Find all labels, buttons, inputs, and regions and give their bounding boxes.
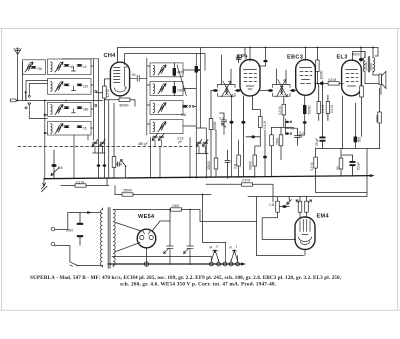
svg-text:m: m [230,246,233,250]
variable capacitor B3 [55,105,63,115]
svg-text:4470: 4470 [177,71,184,75]
junction dot grid EL3 [317,83,319,85]
coil B1 [51,62,53,72]
svg-text:450 μF: 450 μF [138,142,148,146]
resistor 50000 under CH4 [119,98,130,108]
tube EL3 [342,60,362,96]
blob rail b [103,164,107,167]
resistor 0.2M horizontal [75,181,86,188]
svg-text:pF: pF [179,140,183,144]
ground earth symbol [144,262,149,267]
resistor 50000 EBC3 diode [303,96,312,121]
capacitor blob B2a [64,84,69,86]
wire EL3 anode [343,52,365,84]
wire osc gang link [177,65,187,96]
capacitor EF9 grid top [236,48,245,63]
speaker [379,71,386,88]
junction dots top bus [249,47,374,49]
volume pot arrow [121,160,127,179]
capacitor blob B3a [64,107,69,109]
osc box row2 [150,82,183,96]
resistor 25000 horizontal [122,188,133,196]
svg-text:50: 50 [132,73,136,77]
chassis bus main [44,176,372,179]
capacitor 50000 screen [249,155,257,178]
svg-text:EL3: EL3 [337,54,348,60]
wire mid verticals [99,100,109,179]
ground symbol left [42,178,48,192]
wire band row2 [26,81,48,101]
svg-text:150: 150 [181,113,187,117]
svg-text:50000: 50000 [308,105,312,114]
osc coil row4 [153,122,155,132]
svg-text:0.1 M: 0.1 M [263,121,267,129]
wire EBC3 top [305,48,307,61]
wire CH4 anode to bus1 [117,48,119,63]
svg-text:CH4: CH4 [104,53,117,59]
resistor 0.5M sec [326,95,334,121]
tone contact 4 [229,262,233,266]
resistor 0.1M EL3 grid leak [317,83,325,120]
power transformer secondary [113,210,115,266]
junction dots power [169,209,191,265]
tuner box B2 [48,79,92,95]
svg-text:50000: 50000 [213,121,217,130]
osc coil row1 [153,65,155,75]
wire 10000 leads [316,48,318,84]
svg-text:50: 50 [336,166,340,170]
IF T1 blobs [213,89,242,92]
chassis bus power arrow [241,262,246,265]
resistor AVC left [11,99,17,102]
wire EM4 feed [248,149,367,256]
resistor 123 vertical [103,86,110,98]
wire mains bottom [55,246,101,267]
svg-text:10: 10 [83,65,87,69]
resistor EM4 b [305,197,309,218]
tube EF9 [240,60,260,96]
resistor 20000 osc anode [195,66,200,73]
resistor 500 [354,137,362,143]
variable capacitor 115 [51,150,59,178]
svg-text:0.5 M: 0.5 M [278,106,282,114]
svg-text:0.5 M: 0.5 M [330,105,334,113]
resistor 0.5M det [242,179,253,187]
resistor 10000 EL3 grid [316,60,324,80]
blob EF9 screen [259,48,268,67]
trimmer T1 [92,140,98,147]
svg-text:0.1 M: 0.1 M [321,105,325,113]
blob rail a [97,164,101,167]
osc box row4 [150,120,183,134]
variable capacitor B2 [55,82,63,92]
wire tuner left rail [21,62,23,101]
svg-text:f: f [236,245,237,249]
osc contact f [189,106,191,108]
capacitor at pot [116,162,121,166]
arrows EM4 resistors [296,200,312,203]
svg-text:5000: 5000 [376,115,380,122]
wire IF T2 leads [260,69,286,91]
wire top bus 1 [118,47,379,49]
resistor 150 EL3 cathode [360,83,364,103]
capacitor 0.1 uF EBC3 [295,129,305,145]
electrolytic cap 1 [164,222,174,265]
osc trimmers bottom [152,134,164,147]
svg-text:50000: 50000 [249,161,253,170]
tube EBC3 [296,60,316,96]
resistor 0.5M AVC [310,157,317,170]
svg-text:0.2 M: 0.2 M [76,181,84,185]
svg-text:50000: 50000 [120,104,129,108]
wire EF9 anode [249,48,251,62]
tuner box B4 [48,122,92,136]
switch contacts diode [286,119,298,135]
resistor 4470 [173,63,185,77]
tube WE54 [137,229,156,248]
svg-text:EM4: EM4 [317,214,330,220]
capacitor blob B2b [77,84,82,86]
blob 115 [51,164,56,167]
svg-text:1 M: 1 M [269,203,275,207]
switch contact b [28,95,30,97]
svg-text:M: M [210,246,213,250]
switch contact a [25,107,27,109]
wire 123 leads [97,79,111,101]
svg-text:1,2 M: 1,2 M [106,89,110,97]
svg-text:110: 110 [83,85,88,89]
tube EM4 [295,217,315,249]
resistor 5000 right [376,112,382,123]
wire B plus [118,210,257,222]
wire tuner right rail [91,59,99,140]
coil B3 [51,105,53,115]
blob mid b [241,96,260,177]
resistor EF9 cathode [207,130,218,177]
svg-text:2500: 2500 [276,138,280,145]
tone switch labels [210,245,238,250]
wire mains top [55,213,101,230]
svg-text:15: 15 [83,126,87,130]
wire EBC3 to EL3 [315,82,343,84]
svg-text:25000: 25000 [123,188,132,192]
variable capacitor A1 [25,62,33,72]
svg-text:10000: 10000 [320,70,324,79]
osc varcap row1 [158,65,166,75]
osc varcap row2 [158,84,166,94]
svg-text:760: 760 [37,67,43,71]
electrolytic cap 2 [184,210,194,265]
svg-text:0.5 M: 0.5 M [242,179,250,183]
tuner box B3 [48,102,92,116]
resistor EM4 a [298,197,302,218]
svg-text:50 μF: 50 μF [357,162,361,170]
switch contact e [95,105,97,107]
capacitor 0.1 top [220,113,227,127]
switch blob c [25,91,27,93]
svg-text:μF: μF [300,135,304,139]
wire transformer leads [103,208,119,267]
osc contact g [192,106,194,108]
resistor 0.5M under T2 [272,96,292,127]
tuner box A1 [23,60,46,75]
ground stub B1 [72,67,76,72]
volume pot resistor [112,103,116,178]
svg-text:SUPERLA - Mod. 547 B - MF: 470: SUPERLA - Mod. 547 B - MF: 470 kc/s, ECH… [30,275,342,281]
wire band L [28,103,48,119]
osc box row3 [150,101,183,115]
tone contact 2 [217,262,221,266]
capacitor blob B1a [64,64,69,66]
svg-text:1000: 1000 [172,204,179,208]
resistor 0.5M coupling [320,78,339,85]
capacitor blob B4b [77,126,82,128]
svg-text:180: 180 [83,107,89,111]
mains switch [70,262,79,266]
svg-text:115: 115 [58,166,63,170]
wire AVC bus [10,100,103,102]
wire EM4 bottom [304,249,306,255]
tone contact 3 [223,262,227,266]
chassis bus arrow [370,174,375,177]
variable capacitor B4 [55,124,63,134]
resistor 1000 filter [171,204,182,211]
svg-text:4000: 4000 [353,53,360,57]
svg-text:EBC3: EBC3 [287,55,303,61]
ground stub B2 [72,86,76,91]
ground stub B3 [72,109,76,113]
svg-text:F: F [217,245,219,249]
wire osc right rails [183,48,206,179]
blob mid a [230,121,234,124]
resistor 4000 top [353,48,364,63]
tuner box B1 [48,59,92,75]
tone contact 5 [236,262,240,266]
svg-text:3 M: 3 M [234,163,238,169]
wire contact stubs [26,92,30,101]
power transformer primary [101,210,103,266]
wire CH4 screen to bus2 [124,60,126,65]
svg-text:0.1: 0.1 [220,117,225,121]
wire wiper vertical [45,101,48,179]
coil B4 [51,124,53,134]
tuning gang dashed link [18,146,192,148]
hanging resistor EF9 grid [209,91,217,178]
trimmer T2 [100,140,106,147]
wire IF T1 leads [211,55,231,91]
wire EF9 long verticals [224,96,232,177]
svg-text:2000: 2000 [370,63,374,70]
coil B2 [51,82,53,92]
capacitor 25uF [315,81,326,148]
resistor diode load [255,110,267,177]
trimmer 3-15 pF [177,137,208,147]
wire trimmer row [88,135,208,154]
capacitor 50 series [130,75,147,81]
blob EM4 coupling [279,205,289,208]
capacitor blob B1b [77,64,82,66]
wire right drop [379,88,381,149]
osc varcap row4 [158,122,166,132]
IF T2 blobs [268,89,296,92]
svg-text:sch. 260, gr. 4.6. WE54 350 V: sch. 260, gr. 4.6. WE54 350 V p. Corr. t… [120,282,277,288]
capacitor 150 osc [181,105,188,117]
wire heater return [112,256,211,258]
blob det junction [263,156,267,159]
wire transformer top [365,48,378,79]
osc left rail [147,58,150,135]
wire CH4 cathode [104,96,135,106]
osc varcap row3 [158,103,166,113]
wire right mid rail [316,103,380,149]
wire 25000 [115,186,226,243]
resistor 50000 AVC a [270,127,274,176]
wire det line [206,184,273,202]
osc box row1 [150,63,183,77]
svg-text:2000: 2000 [66,229,73,233]
wire speaker leads [365,75,381,95]
switch contact d [95,91,97,93]
svg-text:20000: 20000 [364,61,368,70]
power transformer core [108,208,110,269]
wire cathode net [341,96,353,176]
wire WE54 bottom [146,248,148,262]
resistor 50 cathode [336,158,343,170]
svg-text:25 μF: 25 μF [315,138,319,146]
coil blob 760 [31,66,36,68]
wire 0.5M leads [316,148,367,193]
IF transformer T2 [273,80,291,97]
output transformer [363,57,375,73]
resistor EF9 screen [234,140,241,178]
osc coil row2 [153,84,155,94]
blob mid c [246,135,260,138]
resistor 25000 AVC b [276,127,283,159]
capacitor 50uF [350,155,361,176]
mains terminal 1 [51,227,55,231]
capacitor blob B4a [64,126,69,128]
capacitor blob B3b [77,107,82,109]
svg-text:20000: 20000 [207,161,211,170]
wire tuner top rail [62,58,99,60]
resistor 1M EM4 grid [269,197,292,213]
wire tone stems [211,242,237,262]
wire tuner to bus [74,135,190,178]
resistor 10000 osc [173,82,186,96]
wire WE54 top [115,221,171,252]
tube CH4 [110,62,129,96]
tone switch arrows [211,250,237,261]
svg-text:0.5 M: 0.5 M [328,78,336,82]
svg-text:0.5 M: 0.5 M [310,162,314,170]
IF transformer T1 [218,81,236,97]
oscillator shield frame [125,54,205,71]
junction dots tuner [17,100,67,134]
variable capacitor B1 [55,62,63,72]
capacitor EF9 cathode [225,150,230,178]
tone contact 1 [209,262,213,266]
wire 0.2M [61,178,109,185]
capacitor 2000 [66,213,83,246]
chassis bus power [108,263,242,265]
antenna [14,48,21,101]
blob EBC3 diode [299,121,307,135]
svg-text:500: 500 [357,137,361,143]
mains terminal 2 [51,242,55,246]
osc coil row3 [153,103,155,113]
svg-text:WE54: WE54 [138,214,155,220]
